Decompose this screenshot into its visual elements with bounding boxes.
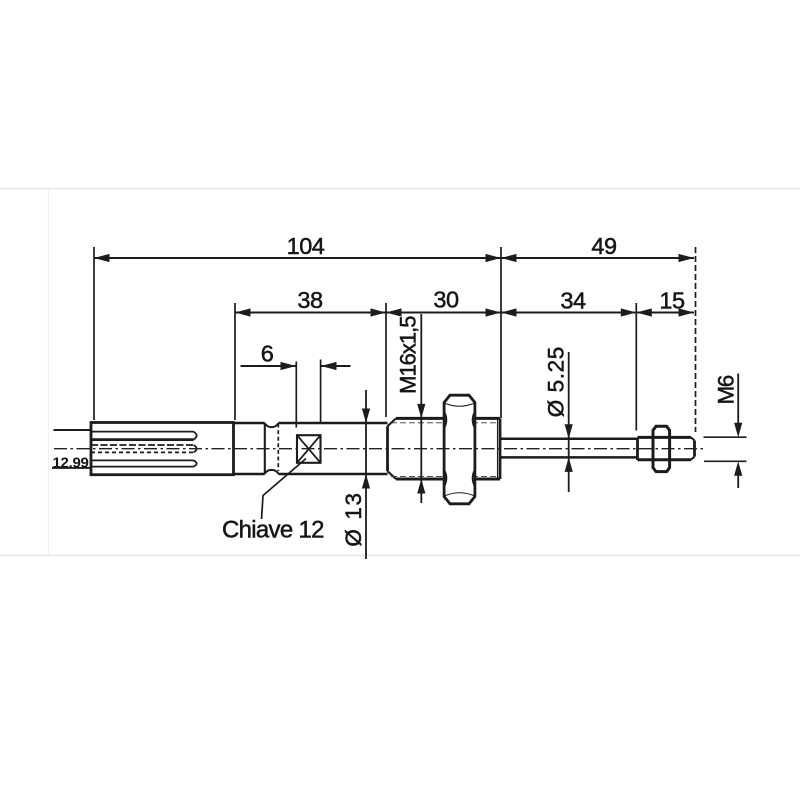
leader line Chiave 12 — [262, 459, 307, 520]
section bottom edge 233.5-264.8 — [234, 473, 265, 476]
svg-text:Ø 5.25: Ø 5.25 — [544, 346, 569, 417]
d13 dimension line — [365, 390, 367, 559]
arrow M6 top — [734, 423, 742, 438]
relief groove bottom curve — [265, 470, 279, 474]
extension line 34/15 junction (x=636.3) — [635, 303, 637, 431]
d5.25 dimension line — [568, 352, 570, 492]
spline groove line 4 — [91, 451, 194, 453]
M16 thread minor line top — [391, 422, 498, 424]
spline groove cap 1 — [194, 432, 197, 440]
centerline — [54, 448, 704, 450]
arrow 49 left — [501, 254, 517, 262]
dimension line 6 right segment — [321, 365, 351, 367]
thread end chamfer top — [691, 437, 695, 440]
M6 dimension line lower — [737, 474, 739, 489]
rod d5.25 top edge — [500, 437, 638, 440]
shaft d13 bottom edge — [278, 473, 387, 476]
arrow 104 right — [486, 254, 502, 262]
M16 bush bottom edge — [396, 478, 500, 481]
svg-text:15: 15 — [659, 288, 685, 314]
shaft d13 top edge — [278, 422, 387, 425]
svg-text:Ø 13: Ø 13 — [341, 491, 366, 546]
section top edge 233.5-264.8 — [234, 422, 265, 425]
part body — [52, 418, 500, 519]
M6 dimension line upper — [737, 374, 739, 426]
arrow 38 left — [235, 308, 251, 316]
M6 thread bottom edge — [638, 458, 692, 461]
relief groove top curve — [265, 423, 279, 427]
spline groove cap 3 — [194, 460, 197, 466]
M6 thread top edge — [638, 436, 692, 439]
square diagonal 1 — [297, 435, 321, 463]
splined shaft outline — [91, 423, 234, 475]
M16 dimension line — [420, 314, 422, 503]
M6 extension line top — [704, 436, 747, 438]
thread end vertical — [693, 441, 696, 457]
vertical dimension arrowheads — [362, 404, 742, 494]
arrow 34 right — [621, 308, 637, 316]
M16 bush top edge — [396, 417, 500, 420]
M16 bush left edge — [386, 426, 389, 471]
M16 bush right edge inner — [497, 419, 499, 479]
arrow d13 bottom — [362, 474, 370, 489]
rotated labels — [341, 316, 739, 547]
arrow M16 top — [417, 404, 425, 419]
spline groove line 1 — [91, 431, 194, 433]
thread end chamfer bottom — [691, 457, 695, 460]
arrow d13 top — [362, 409, 370, 424]
M16 thread minor line bottom — [391, 475, 498, 477]
extension line 104/49 junction (x=501) — [500, 247, 502, 418]
scan area frame — [0, 189, 800, 556]
arrow d5.25 top — [565, 424, 573, 439]
arrowheads dimension rows — [94, 254, 694, 370]
svg-text:Chiave 12: Chiave 12 — [222, 517, 324, 544]
dimension line 49 — [501, 257, 694, 259]
extension line 6 right (x=320.6) — [320, 360, 322, 424]
arrow 15 right — [679, 308, 695, 316]
M16 bush right edge — [499, 418, 502, 479]
section end vertical (x=264.8) — [264, 423, 266, 474]
svg-text:M16x1,5: M16x1,5 — [396, 316, 421, 394]
square diagonal 2 — [297, 435, 321, 463]
svg-text:6: 6 — [261, 341, 274, 367]
M16 bush chamfer bottom left — [388, 471, 397, 479]
hex nut M6 — [653, 426, 670, 471]
arrow 104 left — [94, 254, 110, 262]
dimension line 6 left segment — [241, 365, 297, 367]
spline groove line 6 — [91, 466, 194, 468]
cable line top — [54, 429, 92, 431]
arrow 6 left — [281, 362, 297, 370]
svg-text:12.99: 12.99 — [53, 455, 89, 472]
hex nut M16 facet arcs — [444, 404, 475, 496]
extension line 38/30 junction (x=386) — [385, 303, 387, 417]
arrow 15 left — [636, 308, 652, 316]
svg-text:34: 34 — [560, 288, 586, 314]
dimension texts — [261, 233, 685, 367]
svg-text:38: 38 — [297, 287, 323, 313]
svg-text:49: 49 — [591, 233, 616, 259]
extension line right end dashed (x=695.5) — [695, 247, 697, 432]
svg-text:M6: M6 — [714, 375, 739, 404]
spline groove line 5 — [91, 459, 194, 461]
svg-text:30: 30 — [433, 287, 459, 313]
svg-text:104: 104 — [287, 233, 325, 259]
extension line left end (x=94) — [93, 247, 95, 420]
extension line 6 left (x=296.3) — [295, 362, 297, 428]
hex nut M16 — [444, 395, 475, 504]
square section indicator — [297, 435, 321, 463]
arrow M6 bottom — [734, 461, 742, 476]
M6 extension line bottom — [704, 460, 747, 462]
cable line bottom / underline — [52, 467, 91, 469]
rod d5.25 bottom edge — [500, 456, 638, 459]
M16 bush chamfer top left — [388, 418, 397, 426]
arrow 34 left — [501, 308, 517, 316]
spline groove line 2 — [91, 438, 194, 441]
arrow M16 bottom — [417, 479, 425, 494]
arrow 38 right — [371, 308, 387, 316]
arrow 30 left — [386, 308, 402, 316]
spline groove line 3 — [91, 444, 194, 446]
spline groove cap 2 — [194, 445, 197, 452]
arrow 49 right — [679, 254, 695, 262]
arrow 6 right — [321, 362, 337, 370]
dimension line 38 30 34 15 — [235, 311, 694, 313]
hidden line at groove (x=278.3) — [277, 424, 279, 472]
extension line 38 left (x=235) — [234, 303, 236, 420]
arrow 30 right — [486, 308, 502, 316]
arrow d5.25 bottom — [565, 457, 573, 472]
thread start vertical (x=637.5) — [636, 438, 639, 460]
dimension line 104 — [94, 257, 501, 259]
